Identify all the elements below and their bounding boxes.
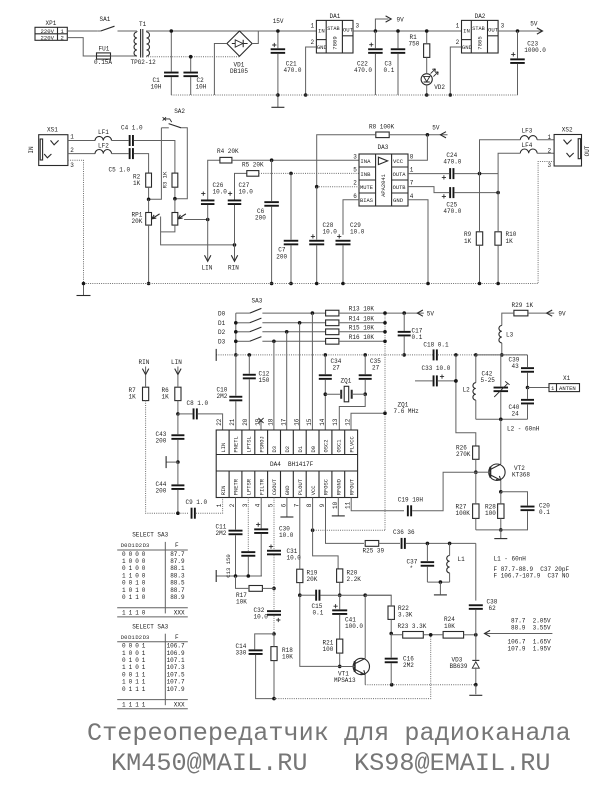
svg-text:1: 1	[122, 587, 126, 594]
node 5V arrow mid	[432, 124, 446, 138]
resistor R14 10K	[326, 315, 375, 325]
svg-text:0: 0	[135, 572, 139, 579]
svg-text:XS1: XS1	[47, 126, 58, 133]
svg-text:5V: 5V	[432, 124, 440, 131]
junction	[234, 321, 238, 325]
wire R26 to VT2 base	[475, 459, 477, 472]
resistor R5 20K	[242, 162, 264, 177]
svg-text:LF4: LF4	[522, 142, 533, 149]
junction	[272, 587, 276, 591]
capacitor C24 470.0 polarized	[442, 152, 462, 180]
svg-text:C13 150: C13 150	[225, 554, 232, 578]
svg-text:1: 1	[122, 664, 126, 671]
wire C40 bottom	[527, 404, 529, 419]
wire C23 top	[517, 31, 519, 58]
junction	[176, 460, 180, 464]
svg-text:1: 1	[129, 572, 133, 579]
svg-text:OUTB: OUTB	[393, 185, 407, 191]
table rules	[117, 542, 188, 617]
junction	[176, 412, 180, 416]
svg-text:LF1: LF1	[98, 129, 109, 136]
junction	[147, 198, 151, 202]
wire X1 tap	[528, 387, 550, 389]
wire C43 to tick node	[177, 440, 179, 462]
svg-text:0: 0	[135, 664, 139, 671]
wire SA2 right leg	[175, 128, 187, 199]
junction	[315, 282, 319, 286]
wire R8 left to MUTE node	[317, 135, 376, 187]
svg-text:INA: INA	[360, 158, 371, 165]
junction D2 tap	[285, 330, 289, 334]
junction	[474, 683, 478, 687]
switch SA1	[98, 16, 115, 31]
svg-text:R5 20K: R5 20K	[242, 162, 264, 169]
wire R20 bottom	[339, 582, 341, 595]
svg-text:BB639: BB639	[450, 663, 468, 670]
svg-text:1: 1	[216, 503, 223, 507]
wire T1 secondary top to bridge	[147, 31, 278, 32]
resistor R19 20K	[297, 569, 318, 583]
capacitor C29 10.0 polarized	[336, 222, 365, 245]
svg-text:0: 0	[129, 551, 133, 558]
junction	[454, 379, 458, 383]
wire VT1 collector up	[364, 595, 366, 658]
node 9V arrow	[375, 16, 404, 31]
wire C39 to X1 node	[527, 373, 529, 388]
ground power rail	[271, 95, 284, 107]
wire DA4 pin3 to C13	[247, 498, 249, 552]
svg-text:3: 3	[548, 162, 552, 169]
wire DA4 pin7 to R19	[299, 498, 301, 570]
svg-text:0: 0	[122, 580, 126, 587]
svg-text:IN: IN	[318, 28, 325, 35]
svg-text:10K: 10K	[282, 654, 293, 661]
node RIN arrow in	[139, 359, 150, 375]
chassis tick input network	[166, 456, 178, 468]
svg-text:10H: 10H	[151, 84, 162, 91]
wire C5 to R2 top	[134, 154, 149, 174]
svg-text:4: 4	[410, 193, 414, 200]
svg-text:KS98@EMAIL.RU: KS98@EMAIL.RU	[354, 749, 551, 778]
wire C27 top to R5	[235, 173, 247, 199]
wire C29 bottom to bus	[342, 245, 344, 283]
capacitor C9 1.0	[186, 499, 208, 519]
wire D3 line to resistor	[262, 340, 325, 342]
junction	[248, 353, 252, 357]
junction	[338, 593, 342, 597]
node LIN arrow	[202, 220, 213, 272]
svg-text:D1: D1	[218, 320, 226, 327]
junction	[478, 282, 482, 286]
junction	[389, 632, 393, 636]
wire VD3 bottom	[475, 667, 477, 684]
svg-text:1: 1	[142, 664, 146, 671]
svg-text:1: 1	[410, 166, 414, 173]
wire C6 top	[271, 160, 273, 201]
wire DA3 BIAS to C29	[343, 200, 359, 235]
junction	[474, 633, 478, 637]
wire L3 to tank top	[501, 343, 503, 355]
svg-text:PLOUT: PLOUT	[298, 478, 304, 495]
transformer T1 TPG2-12	[131, 21, 157, 66]
svg-text:200: 200	[276, 253, 287, 260]
svg-text:1: 1	[122, 701, 126, 708]
capacitor C28 10.0 polarized	[309, 222, 337, 245]
wire L1 bottom	[449, 573, 451, 582]
junction	[496, 191, 500, 195]
svg-text:D1: D1	[128, 542, 135, 549]
svg-text:F: F	[175, 634, 179, 641]
regulator DA1 7809	[316, 13, 353, 53]
resistor R18 10K	[271, 647, 293, 661]
svg-text:107.1: 107.1	[167, 657, 185, 664]
svg-text:LIN: LIN	[171, 359, 182, 366]
wire C36 to L1 node	[406, 542, 476, 544]
resistor R29 1K	[512, 302, 534, 316]
wire C35 bottom	[364, 380, 366, 394]
svg-text:L3: L3	[506, 332, 514, 339]
wire bottom line to R23R24 node	[274, 635, 431, 699]
svg-text:106.9: 106.9	[167, 650, 185, 657]
capacitor C34 27	[319, 358, 342, 380]
capacitor C38 62	[469, 598, 498, 612]
wire collector line to R22	[365, 595, 391, 606]
junction	[270, 158, 274, 162]
svg-text:100.0: 100.0	[345, 623, 363, 630]
wire D1 to DA4	[299, 323, 301, 430]
junction	[454, 379, 458, 383]
wire C7 bottom to bus	[290, 245, 292, 283]
svg-text:LF2: LF2	[98, 142, 109, 149]
ground VT2 stage	[494, 530, 507, 539]
wire R19 bottom	[299, 583, 301, 596]
capacitor C26 10.0 polarized	[201, 182, 227, 205]
capacitor C19 10H	[398, 497, 424, 517]
junction	[426, 282, 430, 286]
svg-text:0: 0	[122, 686, 126, 693]
table header	[121, 634, 179, 641]
svg-text:R14 10K: R14 10K	[349, 315, 375, 322]
wire C7 top	[290, 173, 292, 239]
svg-text:F 106.7-107.9 C37 NO: F 106.7-107.9 C37 NO	[494, 572, 570, 579]
svg-text:0.1: 0.1	[412, 334, 423, 341]
junction	[496, 282, 500, 286]
svg-text:D1: D1	[298, 446, 304, 452]
svg-text:VCC: VCC	[393, 158, 404, 165]
ground DA4 pin10	[332, 498, 345, 516]
capacitor C15 0.1	[312, 590, 324, 617]
svg-text:470.0: 470.0	[443, 208, 461, 215]
junction	[516, 29, 520, 33]
resistor R16 10K	[326, 334, 375, 344]
wire C23 down to rail	[517, 64, 519, 95]
svg-text:1: 1	[129, 565, 133, 572]
svg-text:88.7: 88.7	[170, 587, 185, 594]
resistor R22 3.3K	[388, 605, 413, 619]
junction	[276, 29, 280, 33]
wire C12 top	[248, 355, 250, 374]
junction	[82, 282, 86, 286]
wire C15 to R20 node	[321, 594, 340, 596]
svg-text:R23 3.3K: R23 3.3K	[398, 623, 427, 630]
svg-text:ZQ1: ZQ1	[341, 377, 352, 384]
capacitor C32 10.0 polarized	[254, 607, 282, 622]
wire C22 top	[374, 31, 376, 48]
wire C14 top leg	[255, 634, 274, 650]
wire C28 bottom to bus	[316, 245, 318, 283]
wire R27 bottom line	[476, 529, 501, 531]
svg-text:1: 1	[122, 679, 126, 686]
svg-text:1: 1	[142, 686, 146, 693]
svg-text:0.15A: 0.15A	[94, 59, 112, 66]
junction	[289, 282, 293, 286]
wire C16 bottom	[390, 663, 392, 685]
wire T1 primary top	[136, 31, 138, 32]
wire ZQ1 left	[325, 393, 341, 395]
wire C42 bottom	[500, 392, 502, 419]
junction	[147, 282, 151, 286]
svg-text:100K: 100K	[456, 510, 471, 517]
wire LED to rail	[426, 85, 428, 95]
svg-text:D3: D3	[143, 542, 150, 549]
svg-text:6: 6	[353, 193, 357, 200]
svg-text:D2: D2	[135, 542, 142, 549]
ground DA4 pin6	[280, 498, 293, 518]
table row xxx band2	[122, 701, 185, 708]
svg-text:88.3: 88.3	[170, 572, 185, 579]
resistor R10 1K	[495, 231, 517, 245]
wire C37 L1 join	[427, 581, 449, 583]
wire DA4 pin11 to C19	[351, 498, 404, 511]
wire D3 to DA4	[273, 341, 275, 430]
svg-text:22: 22	[216, 418, 223, 426]
wire DA2 GND down to rail	[450, 47, 461, 95]
svg-text:1: 1	[129, 686, 133, 693]
trimmer capacitor C37	[407, 558, 435, 572]
capacitor C6 200	[255, 201, 279, 221]
wire DA2 out to 5V arrow	[498, 30, 542, 32]
wire R27 bottom	[475, 518, 477, 530]
svg-text:TPG2-12: TPG2-12	[131, 59, 157, 66]
junction	[176, 511, 180, 515]
connector XP1	[35, 20, 67, 41]
svg-text:1K: 1K	[464, 238, 472, 245]
svg-text:88.9: 88.9	[170, 594, 185, 601]
junction	[272, 632, 276, 636]
wire power ground rail	[171, 94, 517, 96]
wire C25 to LF4 node	[454, 192, 498, 194]
wire RIN to R7	[145, 375, 147, 388]
svg-text:0: 0	[129, 643, 133, 650]
wire R16 10K to 5V bus	[339, 340, 385, 342]
wire RP1b wiper to LIN line	[184, 219, 208, 221]
svg-text:3: 3	[353, 153, 357, 160]
capacitor C3 0.1	[384, 48, 406, 74]
svg-text:2: 2	[548, 147, 552, 154]
svg-text:1: 1	[142, 701, 146, 708]
wire C22 bottom	[374, 54, 376, 95]
capacitor C31 10.0 polarized	[267, 545, 301, 562]
svg-text:20K: 20K	[132, 218, 143, 225]
label ZQ1 frequency	[394, 402, 420, 416]
svg-text:1: 1	[135, 679, 139, 686]
svg-text:10.0: 10.0	[279, 532, 294, 539]
wire D0 to DA4	[311, 313, 313, 430]
capacitor C11 2M2	[216, 523, 243, 537]
svg-text:X1: X1	[563, 375, 571, 382]
wire mid ground rail	[216, 354, 433, 356]
capacitor C27 10.0 polarized	[228, 182, 254, 205]
svg-text:D2: D2	[218, 329, 226, 336]
wire C34 top	[324, 355, 326, 374]
wire C1 top	[170, 31, 172, 72]
svg-text:C36 36: C36 36	[393, 529, 415, 536]
junction	[289, 172, 293, 176]
svg-text:5: 5	[268, 503, 275, 507]
svg-text:43: 43	[512, 363, 520, 370]
svg-text:RIN: RIN	[228, 265, 239, 272]
svg-text:150: 150	[259, 377, 270, 384]
capacitor C40 24	[509, 399, 535, 418]
svg-text:STAB: STAB	[472, 26, 484, 32]
svg-text:C5 1.0: C5 1.0	[109, 167, 131, 174]
svg-text:R25 39: R25 39	[363, 548, 385, 555]
svg-text:IN: IN	[28, 146, 35, 154]
inductor LF1	[95, 129, 111, 141]
junction	[499, 528, 503, 532]
resistor R8 100K	[369, 124, 395, 138]
svg-text:MPSA13: MPSA13	[334, 677, 356, 684]
svg-text:3.3K: 3.3K	[398, 612, 413, 619]
wire bridge plus up to 15V rail	[252, 31, 316, 44]
wire C8 node to C43	[177, 414, 179, 434]
resistor R17 10K	[236, 586, 262, 606]
junction	[338, 665, 342, 669]
wire C38 to VD3 node	[475, 610, 477, 635]
junction	[390, 683, 394, 687]
svg-text:ANTEN: ANTEN	[559, 385, 576, 392]
wire R28 bottom	[500, 518, 502, 530]
junction	[170, 29, 174, 33]
wire C3 top	[397, 31, 399, 48]
svg-text:C19 10H: C19 10H	[398, 497, 424, 504]
svg-text:D0: D0	[311, 446, 317, 452]
svg-text:OSC1: OSC1	[337, 440, 343, 453]
svg-text:LIN: LIN	[202, 265, 213, 272]
resistor R26 270K	[456, 444, 479, 459]
svg-text:MUTE: MUTE	[360, 185, 373, 191]
wire node to RP1b top	[174, 199, 176, 213]
no-connect pin 19 DA4	[258, 418, 263, 430]
svg-text:RIN: RIN	[221, 485, 227, 495]
ground L1 C37	[434, 582, 447, 595]
wire fuse to T1 primary bottom	[111, 55, 138, 57]
wire R29 to 9V arrow	[528, 312, 554, 314]
junction	[272, 697, 276, 701]
svg-text:107.9: 107.9	[167, 686, 185, 693]
svg-text:10.0: 10.0	[323, 229, 338, 236]
svg-text:KT368: KT368	[512, 472, 530, 479]
svg-text:SA2: SA2	[174, 108, 185, 115]
svg-text:0: 0	[142, 580, 146, 587]
table SELECT SA3 band 2	[0, 0, 1, 1]
wire DA3 VCC up to 5V line	[408, 135, 427, 161]
wire RP1a bottom to ground bus	[148, 225, 150, 283]
svg-text:10H: 10H	[196, 84, 207, 91]
svg-text:10.0: 10.0	[287, 555, 302, 562]
wire R19 node down to base line	[300, 595, 340, 666]
svg-text:2M2: 2M2	[216, 530, 227, 537]
wire C10 to DA4 pin21	[235, 401, 237, 430]
svg-text:6: 6	[280, 503, 287, 507]
junction	[499, 490, 503, 494]
svg-text:7805: 7805	[477, 36, 484, 49]
wire R1 top	[426, 31, 428, 44]
wire VT1 emitter to bottom rail	[364, 675, 366, 685]
svg-text:L1: L1	[458, 556, 466, 563]
svg-text:1K: 1K	[129, 394, 137, 401]
svg-text:FU1: FU1	[99, 46, 110, 53]
junction	[234, 353, 238, 357]
svg-text:88.1: 88.1	[170, 565, 185, 572]
svg-text:0: 0	[142, 551, 146, 558]
svg-text:GND: GND	[285, 485, 291, 495]
svg-text:5-25: 5-25	[481, 377, 496, 384]
wire R9 bottom to bus	[479, 245, 481, 283]
svg-text:1: 1	[122, 572, 126, 579]
svg-text:470.0: 470.0	[443, 158, 461, 165]
wire R22 node to R23	[391, 634, 403, 635]
junction	[426, 133, 430, 137]
svg-text:APA2041: APA2041	[381, 174, 387, 197]
wire R8 right to 5V	[389, 134, 447, 136]
wire R10 bottom to bus	[497, 245, 499, 283]
junction	[298, 593, 302, 597]
wire D1 line to resistor	[262, 322, 325, 324]
svg-text:D2: D2	[285, 446, 291, 452]
svg-text:2: 2	[229, 503, 236, 507]
svg-text:0: 0	[135, 643, 139, 650]
resistor R9 1K	[464, 231, 483, 245]
wire C17 bottom	[403, 336, 405, 355]
junction	[383, 340, 387, 344]
wire XP1 pin1 to SA1	[67, 30, 97, 32]
svg-text:88.5: 88.5	[170, 580, 185, 587]
inductor L1	[447, 556, 465, 573]
trimmer capacitor C42 5-25	[481, 371, 510, 397]
junction	[526, 386, 530, 390]
svg-text:PNETL: PNETL	[234, 436, 240, 452]
wire R14 10K to 5V bus	[339, 322, 385, 324]
resistor R24 10K	[443, 616, 464, 638]
capacitor C14 330	[236, 643, 263, 657]
wire T1 secondary bottom	[147, 55, 240, 58]
wire C2 bottom	[190, 77, 192, 95]
wire R23 to R24	[423, 634, 443, 636]
junction	[233, 243, 237, 247]
svg-text:1: 1	[129, 664, 133, 671]
wire pin8 node to R20	[313, 530, 339, 569]
svg-text:OUTA: OUTA	[393, 172, 407, 178]
svg-text:R4 20K: R4 20K	[217, 148, 239, 155]
connector XS1 jack IN	[28, 126, 68, 165]
svg-text:7.6 MHz: 7.6 MHz	[394, 408, 420, 415]
svg-text:1: 1	[122, 558, 126, 565]
svg-text:PNETR: PNETR	[234, 478, 240, 495]
svg-text:0: 0	[135, 551, 139, 558]
wire C11 bottom	[235, 535, 237, 576]
svg-text:1: 1	[311, 22, 315, 29]
